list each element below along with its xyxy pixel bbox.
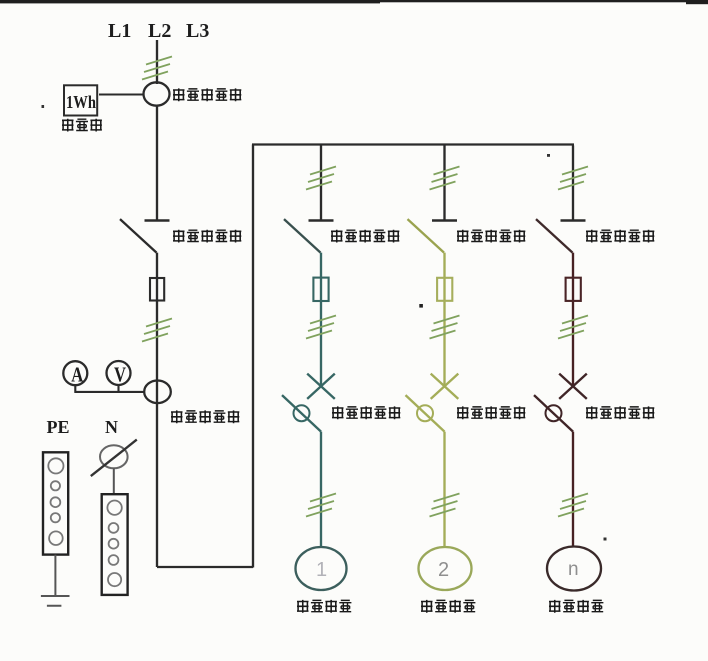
main isolation switch QS	[120, 219, 170, 253]
breaker cross feeder 2	[431, 374, 459, 399]
PE busbar terminals	[48, 458, 63, 545]
slash marks feeder 1 middle	[306, 316, 336, 339]
label: 分配电箱 box 2	[421, 600, 475, 613]
fuse FU1 feeder 1	[313, 278, 328, 301]
distribution box 1	[296, 547, 347, 590]
svg-text:1: 1	[316, 559, 327, 581]
ground symbol	[41, 596, 70, 606]
label PE	[47, 417, 70, 437]
svg-text:L2: L2	[148, 20, 171, 42]
stray dot feeder 3 bottom	[604, 538, 607, 541]
stray dot feeder 2	[419, 304, 423, 308]
energy meter 1Wh box	[64, 85, 97, 115]
label N	[105, 417, 118, 437]
slash marks feeder 3 upper	[558, 167, 588, 190]
label: 总隔离开关 (main isolation switch)	[173, 230, 241, 243]
wire: feeder 3 tap from bus	[572, 146, 574, 221]
label: 分配电箱 box n	[549, 600, 603, 613]
wire: distribution bus	[252, 143, 574, 145]
label: 分隔离开关 feeder 1	[331, 230, 399, 243]
breaker cross feeder 3	[559, 374, 587, 399]
wire: meter to CT1	[99, 93, 144, 95]
label: 漏电断路器 feeder 3	[586, 406, 654, 419]
N busbar	[102, 494, 128, 595]
PE busbar	[43, 452, 68, 554]
label: 分隔离开关 feeder 3	[586, 230, 654, 243]
wire: feeder 3 switch to breaker	[572, 253, 574, 386]
wire: incoming supply vertical	[156, 40, 158, 84]
slash marks feeder 2 lower	[430, 494, 460, 517]
wire: neutral to N busbar	[113, 468, 115, 494]
svg-text:A: A	[71, 362, 84, 386]
wire: feeder 1 tap from bus	[320, 146, 322, 221]
svg-text:2: 2	[438, 559, 449, 581]
3-phase slash marks on incoming wire	[142, 57, 172, 80]
fuse FU0 on main line	[150, 278, 164, 301]
wire: PE busbar to ground	[54, 555, 56, 596]
label: 电流互感器 (current transformer)	[173, 88, 241, 101]
wire: bus riser	[252, 145, 254, 568]
wire: feeder 1 switch to breaker	[320, 253, 322, 386]
feeder 2 isolation switch	[408, 219, 458, 253]
label: 漏电断路器 feeder 2	[457, 406, 525, 419]
distribution box n	[547, 547, 601, 591]
slash marks feeder 1 lower	[306, 494, 336, 517]
phase label L2	[148, 20, 171, 42]
current transformer CT1	[144, 82, 170, 105]
leakage breaker blade + coil feeder 2	[406, 395, 445, 432]
wire: bottom corner to bus riser	[157, 566, 253, 568]
current transformer CT2	[144, 381, 171, 404]
svg-text:1Wh: 1Wh	[66, 92, 96, 112]
slash marks feeder 2 middle	[430, 316, 460, 339]
distribution box 2	[419, 547, 472, 590]
slash marks feeder 2 upper	[430, 167, 460, 190]
voltmeter V	[107, 361, 131, 386]
wire: meters to CT2	[74, 385, 145, 392]
fuse FU3 feeder 3	[566, 278, 581, 301]
phase label L1	[108, 20, 131, 42]
stray dot left	[42, 105, 45, 108]
label: 分配电箱 box 1	[297, 600, 351, 613]
label: 电度表 (energy meter)	[62, 119, 102, 132]
neutral disconnect (circle with blade)	[91, 440, 137, 477]
ammeter A	[63, 361, 87, 386]
phase label L3	[186, 20, 209, 42]
svg-text:V: V	[114, 362, 126, 386]
svg-text:PE: PE	[47, 417, 70, 437]
feeder 3 isolation switch	[536, 219, 586, 253]
wire: feeder 2 tap from bus	[443, 146, 445, 221]
wire: feeder 1 breaker to box	[320, 432, 322, 547]
svg-text:L3: L3	[186, 20, 209, 42]
wire: feeder 3 breaker to box	[572, 432, 574, 547]
feeder 1 isolation switch	[284, 219, 334, 253]
slash marks feeder 3 lower	[558, 494, 588, 517]
slash marks feeder 3 middle	[558, 316, 588, 339]
label: 电流互感器 (current transformer, lower)	[171, 410, 239, 423]
top border band	[0, 0, 708, 2]
wire: main switch down to bottom corner	[156, 253, 158, 567]
svg-text:n: n	[568, 559, 579, 580]
wire: feeder 2 switch to breaker	[443, 253, 445, 386]
stray dot feeder 3 top	[547, 154, 550, 157]
leakage breaker blade + coil feeder 1	[282, 395, 321, 432]
slash marks feeder 1 upper	[306, 167, 336, 190]
svg-text:L1: L1	[108, 20, 131, 42]
slash marks on main line	[142, 319, 172, 342]
label: 分隔离开关 feeder 2	[457, 230, 525, 243]
wire: feeder 2 breaker to box	[443, 432, 445, 547]
label: 漏电断路器 feeder 1	[332, 406, 400, 419]
svg-text:N: N	[105, 417, 118, 437]
leakage breaker blade + coil feeder 3	[534, 395, 573, 432]
wire: CT1 down to main switch	[156, 105, 158, 220]
fuse FU2 feeder 2	[437, 278, 452, 301]
N busbar terminals	[107, 501, 121, 587]
breaker cross feeder 1	[307, 374, 335, 399]
